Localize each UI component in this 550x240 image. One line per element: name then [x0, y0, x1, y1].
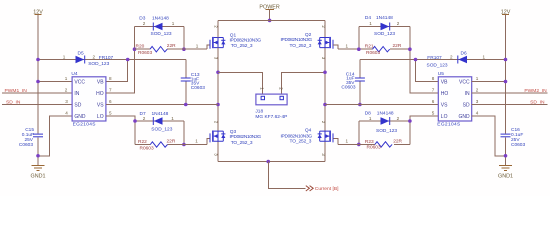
svg-text:LO: LO — [97, 114, 104, 120]
svg-text:SOD_123: SOD_123 — [151, 31, 172, 37]
svg-text:22R: 22R — [167, 43, 176, 49]
svg-text:1: 1 — [195, 139, 198, 144]
svg-text:SOD_123: SOD_123 — [374, 31, 395, 37]
svg-text:R20: R20 — [136, 44, 145, 50]
svg-text:HO: HO — [441, 91, 449, 97]
power POWER bar symbol — [265, 8, 273, 10]
wire D8 left vertical — [358, 121, 360, 144]
svg-text:TO_252_3: TO_252_3 — [231, 140, 253, 146]
node junction bottom rail / current tap — [266, 160, 270, 164]
svg-text:SOD_123: SOD_123 — [427, 62, 448, 68]
wire Q2 source / phase B vertical — [324, 48, 326, 162]
svg-text:2: 2 — [65, 88, 68, 93]
wire D4 top row — [359, 26, 410, 28]
ground GND1 left symbol — [32, 165, 45, 170]
port Current chevrons — [306, 186, 313, 191]
node junction HO/R20 row — [133, 47, 137, 51]
wire HO U5 vertical to gate network — [410, 27, 438, 94]
svg-text:R23: R23 — [365, 139, 374, 145]
power 12V left bar symbol — [35, 14, 42, 16]
wire SD_IN to U4 SD — [2, 104, 72, 106]
svg-text:TO_252_3: TO_252_3 — [290, 43, 312, 49]
diode D5 symbol — [76, 56, 85, 64]
transistor Q3 mosfet symbol — [210, 131, 225, 143]
svg-text:Current [B]: Current [B] — [315, 186, 339, 192]
svg-text:1: 1 — [476, 76, 479, 81]
svg-text:7: 7 — [432, 88, 435, 93]
svg-text:1: 1 — [63, 54, 66, 59]
wire VS U4 row to phase A — [106, 104, 218, 106]
node junction phase A / VS row — [216, 103, 220, 107]
wire R23 gate row — [333, 138, 410, 144]
svg-text:VCC: VCC — [74, 79, 85, 85]
svg-text:8: 8 — [109, 76, 112, 81]
svg-text:R0603: R0603 — [140, 145, 154, 151]
wire current tap down — [268, 162, 305, 189]
wire VCC U5 to 12V — [472, 81, 506, 83]
svg-text:3: 3 — [476, 99, 479, 104]
wire POWER top rail — [218, 19, 325, 21]
svg-text:5: 5 — [432, 111, 435, 116]
svg-text:U5: U5 — [438, 71, 444, 77]
wire D3 top row — [135, 26, 184, 28]
svg-text:IPD082N10N3G: IPD082N10N3G — [230, 38, 262, 44]
node junction VB/D5 — [126, 58, 130, 62]
resistor R21 symbol — [373, 47, 390, 52]
svg-text:6: 6 — [109, 99, 112, 104]
node junction LO/D7 — [133, 119, 137, 123]
svg-text:SOD_123: SOD_123 — [88, 61, 109, 67]
wire U5 IN to PWM2_IN — [472, 92, 548, 94]
wire POWER stem — [269, 9, 271, 20]
svg-text:VCC: VCC — [459, 79, 470, 85]
svg-text:Q1: Q1 — [230, 32, 237, 38]
svg-text:5: 5 — [109, 111, 112, 116]
wire D7 right vertical — [183, 121, 185, 145]
svg-text:D5: D5 — [78, 51, 84, 57]
svg-text:2: 2 — [93, 54, 96, 59]
svg-text:MG KF7.62-4P: MG KF7.62-4P — [255, 114, 287, 120]
svg-text:2: 2 — [143, 21, 146, 26]
wire HO U4 to gate node — [106, 27, 135, 94]
svg-text:SD: SD — [74, 102, 81, 108]
svg-text:VB: VB — [97, 79, 104, 85]
svg-text:LO: LO — [441, 114, 448, 120]
svg-text:EG2104S: EG2104S — [437, 122, 460, 128]
wire J18 pin2 branch — [282, 72, 325, 94]
op-amp U4 IC box EG2104S — [72, 77, 106, 121]
svg-text:1: 1 — [196, 43, 199, 48]
node junction ground left — [36, 154, 40, 158]
svg-text:IN: IN — [465, 91, 470, 97]
svg-text:GND1: GND1 — [498, 173, 513, 179]
diode D4 symbol — [381, 23, 390, 31]
svg-text:1N4148: 1N4148 — [377, 111, 394, 117]
wire PWM1_IN to U4 IN — [2, 92, 72, 94]
svg-text:U4: U4 — [71, 71, 77, 77]
wire D6 bootstrap row — [360, 59, 506, 61]
diode D7 symbol — [153, 117, 162, 125]
node junction D8/gate row — [357, 143, 361, 147]
svg-text:R0603: R0603 — [138, 50, 152, 56]
svg-text:1: 1 — [483, 54, 486, 59]
svg-text:Q4: Q4 — [305, 128, 312, 134]
svg-text:R0603: R0603 — [366, 50, 380, 56]
svg-text:R21: R21 — [365, 44, 374, 50]
node junction POWER/rail — [268, 19, 272, 23]
wire VB branch U4 — [106, 60, 128, 82]
svg-text:Q3: Q3 — [230, 129, 237, 135]
wire C14 bootstrap vertical — [359, 60, 361, 105]
svg-text:22R: 22R — [167, 139, 176, 145]
transistor Q1 mosfet symbol — [210, 37, 225, 49]
svg-text:C0603: C0603 — [191, 85, 205, 91]
svg-text:22R: 22R — [393, 139, 402, 145]
ground GND1 right symbol — [499, 165, 512, 170]
wire Q2 drain vertical — [324, 20, 326, 37]
capacitor C13 symbol — [181, 78, 191, 81]
wire LO U4 to lower gate node — [106, 116, 135, 145]
svg-text:4: 4 — [65, 111, 68, 116]
svg-text:GND: GND — [74, 114, 86, 120]
capacitor C15 symbol — [33, 134, 43, 137]
svg-text:SD_IN: SD_IN — [530, 99, 545, 105]
svg-text:SD_IN: SD_IN — [6, 99, 21, 105]
svg-text:TO_252_3: TO_252_3 — [231, 43, 253, 49]
wire VS U5 row to phase B — [325, 104, 438, 106]
svg-text:22R: 22R — [393, 43, 402, 49]
node junction 12V/D5 — [36, 58, 40, 62]
wire bottom source rail — [218, 161, 325, 163]
svg-text:8: 8 — [432, 76, 435, 81]
svg-text:IPD082N10N3G: IPD082N10N3G — [230, 134, 262, 140]
svg-text:2: 2 — [143, 116, 146, 121]
node junction C13 bottom / VS — [184, 103, 188, 107]
svg-text:6: 6 — [432, 99, 435, 104]
wire U5 GND to ground — [472, 116, 506, 156]
svg-text:Q2: Q2 — [305, 32, 312, 38]
diode D6 symbol — [458, 56, 467, 64]
svg-text:VS: VS — [441, 102, 448, 108]
svg-text:D6: D6 — [461, 50, 467, 56]
svg-text:1: 1 — [172, 21, 175, 26]
svg-text:2: 2 — [476, 88, 479, 93]
svg-text:1: 1 — [346, 43, 349, 48]
svg-text:7: 7 — [109, 88, 112, 93]
wire D3 right vertical to gate row — [183, 27, 185, 50]
wire R20 gate row — [135, 45, 210, 49]
wire D4 left vertical to gate row — [358, 27, 360, 50]
svg-text:1N4148: 1N4148 — [152, 111, 169, 117]
svg-text:1: 1 — [369, 21, 372, 26]
resistor R22 symbol — [150, 142, 167, 147]
node junction 12V/D6 — [504, 58, 508, 62]
svg-text:C0603: C0603 — [19, 142, 33, 148]
resistor R23 symbol — [375, 142, 392, 147]
transistor Q2 mosfet symbol (mirrored) — [318, 37, 333, 49]
svg-text:1: 1 — [171, 116, 174, 121]
svg-text:IPD082N10N3G: IPD082N10N3G — [280, 133, 312, 139]
wire J18 pin1 branch — [218, 72, 263, 94]
svg-text:SD: SD — [463, 102, 470, 108]
svg-text:R22: R22 — [138, 139, 147, 145]
node junction C14 bottom / VS — [358, 103, 362, 107]
node junction 12V/VCC — [36, 80, 40, 84]
svg-text:J18: J18 — [255, 109, 263, 115]
svg-text:3: 3 — [65, 99, 68, 104]
node junction D4/gate row — [357, 47, 361, 51]
svg-text:2: 2 — [397, 116, 400, 121]
svg-text:HO: HO — [96, 91, 104, 97]
wire VB branch U5 — [416, 60, 439, 82]
wire R21 gate row — [333, 45, 410, 49]
node junction HO/R21 row — [408, 47, 412, 51]
node junction D7/gate row — [182, 143, 186, 147]
wire U5 SD to SD_IN — [472, 104, 548, 106]
svg-text:1N4148: 1N4148 — [152, 15, 169, 21]
svg-text:1N4148: 1N4148 — [376, 15, 393, 21]
wire VCC U4 from 12V — [38, 81, 72, 83]
diode D8 symbol — [381, 117, 390, 125]
svg-text:VB: VB — [441, 79, 448, 85]
svg-text:PWM2_IN: PWM2_IN — [524, 88, 547, 94]
connector J18 pin1 pad — [261, 96, 264, 99]
svg-text:SOD_123: SOD_123 — [151, 126, 172, 132]
node junction ground right — [504, 154, 508, 158]
svg-text:IN: IN — [74, 91, 79, 97]
svg-text:SOD_123: SOD_123 — [376, 128, 397, 134]
node junction LO/D8 — [408, 119, 412, 123]
diode D3 symbol — [153, 23, 162, 31]
wire 12V right vertical rail — [505, 15, 507, 166]
svg-text:GND1: GND1 — [31, 173, 46, 179]
svg-text:4: 4 — [476, 111, 479, 116]
node junction phase B / VS row — [323, 103, 327, 107]
svg-text:FR107: FR107 — [427, 55, 442, 61]
node junction D3/gate row — [182, 47, 186, 51]
wire C13 bootstrap vertical — [185, 60, 187, 105]
svg-text:2: 2 — [450, 54, 453, 59]
svg-text:1: 1 — [65, 76, 68, 81]
svg-text:GND: GND — [458, 114, 470, 120]
svg-text:EG2104S: EG2104S — [73, 122, 96, 128]
wire D7 row — [135, 120, 184, 122]
svg-text:VS: VS — [97, 102, 104, 108]
svg-text:IPD082N10N3G: IPD082N10N3G — [280, 37, 312, 43]
node junction 12V/VCC right — [504, 80, 508, 84]
svg-text:TO_252_3: TO_252_3 — [290, 139, 312, 145]
node junction phase B / J18 branch — [323, 70, 327, 74]
wire Q1 drain vertical — [217, 20, 219, 37]
connector J18 pin2 pad — [280, 96, 283, 99]
node junction phase A / J18 branch — [216, 70, 220, 74]
wire R22 gate row — [135, 138, 210, 144]
transistor Q4 mosfet symbol (mirrored) — [318, 131, 333, 143]
wire D8 row — [359, 120, 410, 122]
wire D5 bootstrap row — [38, 59, 186, 61]
node junction VB/D6 — [414, 58, 418, 62]
wire 12V left vertical rail — [37, 15, 39, 166]
svg-text:1: 1 — [369, 116, 372, 121]
svg-text:D4: D4 — [365, 15, 371, 21]
svg-text:PWM1_IN: PWM1_IN — [5, 88, 28, 94]
svg-text:C0603: C0603 — [511, 142, 525, 148]
resistor R20 symbol — [150, 47, 167, 52]
wire U4 GND to ground — [38, 116, 72, 156]
op-amp U5 IC box EG2104S — [438, 77, 471, 121]
svg-text:FR107: FR107 — [99, 55, 114, 61]
svg-text:C0603: C0603 — [341, 84, 355, 90]
capacitor C16 symbol — [501, 134, 511, 137]
power 12V right bar symbol — [502, 14, 509, 16]
svg-text:R0603: R0603 — [367, 145, 381, 151]
connector J18 box — [256, 94, 287, 105]
wire LO U5 to lower gate node — [410, 116, 438, 144]
svg-text:2: 2 — [397, 21, 400, 26]
wire Q1 source / phase A vertical — [217, 48, 219, 162]
capacitor C14 symbol — [355, 78, 365, 81]
svg-text:1: 1 — [346, 139, 349, 144]
